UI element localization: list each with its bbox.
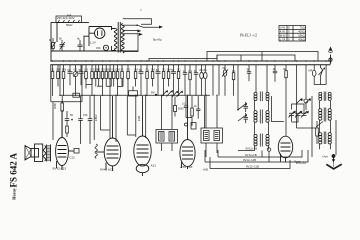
svg-text:U·W: U·W — [280, 26, 286, 30]
svg-text:150: 150 — [96, 46, 101, 50]
svg-text:9V41 A22: 9V41 A22 — [100, 167, 114, 171]
svg-text:0,1: 0,1 — [162, 68, 166, 72]
svg-text:9V12+1B: 9V12+1B — [246, 147, 258, 151]
svg-text:8µ+8µ: 8µ+8µ — [153, 38, 162, 42]
svg-text:K·W: K·W — [280, 30, 286, 34]
svg-text:4+4: 4+4 — [67, 14, 72, 17]
svg-text:5000: 5000 — [178, 108, 184, 111]
svg-text:9V42 A23: 9V42 A23 — [53, 166, 67, 170]
svg-text:+KB: +KB — [203, 168, 208, 172]
svg-text:50: 50 — [223, 66, 226, 70]
svg-text:1,2V: 1,2V — [90, 41, 96, 45]
svg-text:+Ant: +Ant — [322, 154, 328, 158]
svg-text:50Hz: 50Hz — [66, 23, 73, 27]
svg-text:9vca: 9vca — [294, 160, 301, 164]
svg-text:2,5V L63: 2,5V L63 — [180, 165, 193, 169]
svg-text:25: 25 — [120, 68, 123, 72]
svg-text:L·TA: L·TA — [280, 37, 286, 41]
svg-text:C12: C12 — [70, 156, 76, 160]
svg-text:EBF2: EBF2 — [94, 114, 98, 121]
svg-text:0,1: 0,1 — [182, 103, 186, 106]
svg-text:40kΩ: 40kΩ — [298, 37, 304, 41]
svg-text:MF: MF — [309, 69, 313, 73]
svg-text:M·W: M·W — [280, 34, 286, 38]
svg-text:0,1: 0,1 — [74, 68, 78, 72]
svg-text:FS 642 A: FS 642 A — [9, 152, 19, 187]
svg-text:400k: 400k — [53, 103, 57, 109]
svg-text:0,1: 0,1 — [177, 68, 181, 72]
svg-text:A21: A21 — [151, 164, 157, 168]
svg-text:FM: FM — [151, 92, 155, 95]
svg-text:8µ: 8µ — [200, 68, 203, 72]
svg-text:150: 150 — [83, 113, 88, 117]
svg-text:8µ: 8µ — [204, 68, 207, 72]
svg-text:400Ω: 400Ω — [298, 30, 305, 34]
svg-text:230·220·110V: 230·220·110V — [57, 16, 75, 20]
svg-text:Ph·EL3 +/2: Ph·EL3 +/2 — [239, 34, 257, 38]
svg-text:70Ω: 70Ω — [300, 26, 305, 30]
svg-text:50: 50 — [156, 68, 159, 72]
svg-text:0,1: 0,1 — [145, 68, 149, 72]
svg-text:Horny: Horny — [12, 187, 17, 200]
svg-text:9V12−11B: 9V12−11B — [243, 158, 256, 162]
svg-text:EM4: EM4 — [137, 115, 141, 121]
svg-text:50: 50 — [68, 68, 71, 72]
svg-text:0,1: 0,1 — [188, 69, 192, 73]
svg-text:9V12+1B: 9V12+1B — [245, 153, 257, 157]
svg-text:9V12−11B: 9V12−11B — [246, 165, 259, 169]
svg-text:0,1: 0,1 — [232, 69, 236, 73]
svg-text:50: 50 — [171, 68, 174, 72]
svg-text:50k: 50k — [62, 68, 67, 72]
svg-text:0,5: 0,5 — [126, 68, 130, 72]
svg-text:4µ: 4µ — [77, 37, 80, 41]
svg-text:R₁: R₁ — [49, 38, 52, 42]
svg-text:35kΩ: 35kΩ — [298, 34, 304, 38]
